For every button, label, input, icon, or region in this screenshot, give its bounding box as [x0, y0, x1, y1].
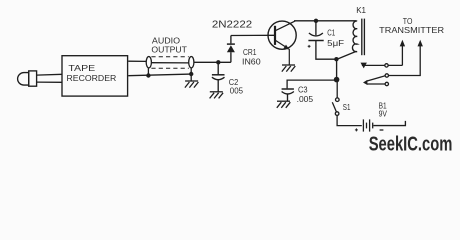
svg-text:SeekIC.com: SeekIC.com: [369, 134, 453, 156]
svg-text:TRANSMITTER: TRANSMITTER: [379, 26, 444, 35]
shielded cable right connector: [189, 57, 194, 68]
wire (coil bottom lead): [337, 51, 356, 59]
svg-text:K1: K1: [356, 5, 366, 15]
wire (contact 2 to transmitter, arrow up): [389, 40, 423, 76]
relay contact 2 (NC): [385, 74, 388, 77]
node (shield at right connector): [189, 68, 193, 81]
shielded cable body (dashed shield outline): [151, 57, 188, 68]
wire (collector rail to relay coil): [294, 20, 356, 22]
ground (below C3): [277, 101, 291, 108]
relay armature (contact 1): [361, 63, 367, 69]
svg-text:005: 005: [230, 86, 244, 96]
tape recorder box: [62, 56, 128, 96]
shielded cable center conductor: [151, 62, 189, 64]
relay contact 2 NO stub: [367, 82, 389, 85]
node (shield at left connector): [146, 68, 150, 78]
label AUDIO OUTPUT: [151, 36, 187, 54]
wire (bus to C3): [287, 80, 337, 88]
svg-text:S1: S1: [343, 102, 351, 112]
label TAPE RECORDER: [67, 63, 117, 83]
ground (emitter): [282, 65, 296, 72]
capacitor C1: [308, 21, 324, 48]
switch S1: [332, 80, 362, 126]
label C2 005: [229, 77, 244, 96]
svg-text:AUDIO: AUDIO: [152, 36, 180, 45]
svg-text:CR1: CR1: [243, 47, 257, 57]
wire (battery negative lead, cut stub): [373, 121, 405, 126]
wire (plug shaft to recorder): [37, 74, 62, 82]
wire (shield return along cable bottom): [128, 74, 191, 76]
wire (diode to transistor base): [231, 34, 275, 36]
svg-text:C3: C3: [298, 84, 308, 94]
wire (cable to C2 node and diode riser): [194, 61, 231, 63]
ground (below C2): [210, 92, 224, 99]
node (signal / C2 junction): [216, 60, 220, 64]
relay armature arm (contact 2): [363, 76, 385, 85]
svg-text:.005: .005: [297, 94, 314, 104]
wire (C1 bottom to coil-return node): [316, 41, 337, 60]
svg-text:IN60: IN60: [242, 57, 261, 67]
svg-text:2N2222: 2N2222: [212, 19, 252, 30]
plug P1 (tape recorder output plug): [18, 71, 37, 86]
battery B1: [363, 119, 372, 131]
svg-text:5μF: 5μF: [327, 38, 344, 48]
svg-text:TO: TO: [403, 17, 413, 26]
svg-text:C1: C1: [327, 28, 335, 38]
wire (contact 1 to transmitter, arrow up): [400, 40, 405, 66]
ground (cable shield): [185, 81, 199, 88]
wire (recorder to cable left connector): [128, 60, 146, 62]
svg-text:9V: 9V: [379, 109, 388, 119]
label B1 9V: [379, 101, 388, 119]
diode CR1: [227, 36, 235, 63]
capacitor C3: [282, 89, 294, 101]
node (C1 tap on collector rail): [314, 19, 318, 23]
svg-text:TAPE: TAPE: [68, 63, 95, 73]
label C1 5uF: [327, 28, 344, 49]
label C3 .005: [297, 84, 314, 104]
svg-text:RECORDER: RECORDER: [67, 73, 117, 83]
node (C1 / coil return junction): [334, 57, 338, 61]
relay contact 1: [362, 64, 403, 67]
svg-text:OUTPUT: OUTPUT: [151, 46, 187, 55]
shielded cable left connector: [146, 57, 151, 68]
relay coil K1: [352, 21, 357, 52]
label - (battery negative): [380, 129, 384, 131]
label TO TRANSMITTER: [379, 17, 444, 35]
label CR1 IN60: [242, 47, 261, 67]
wire (return bus down to S1 node): [336, 59, 338, 79]
relay core: [362, 19, 365, 56]
label + (battery positive): [355, 128, 358, 131]
transistor Q1 2N2222: [268, 21, 296, 65]
capacitor C2: [212, 62, 225, 92]
node (bus to C3 / S1 junction): [334, 77, 340, 83]
